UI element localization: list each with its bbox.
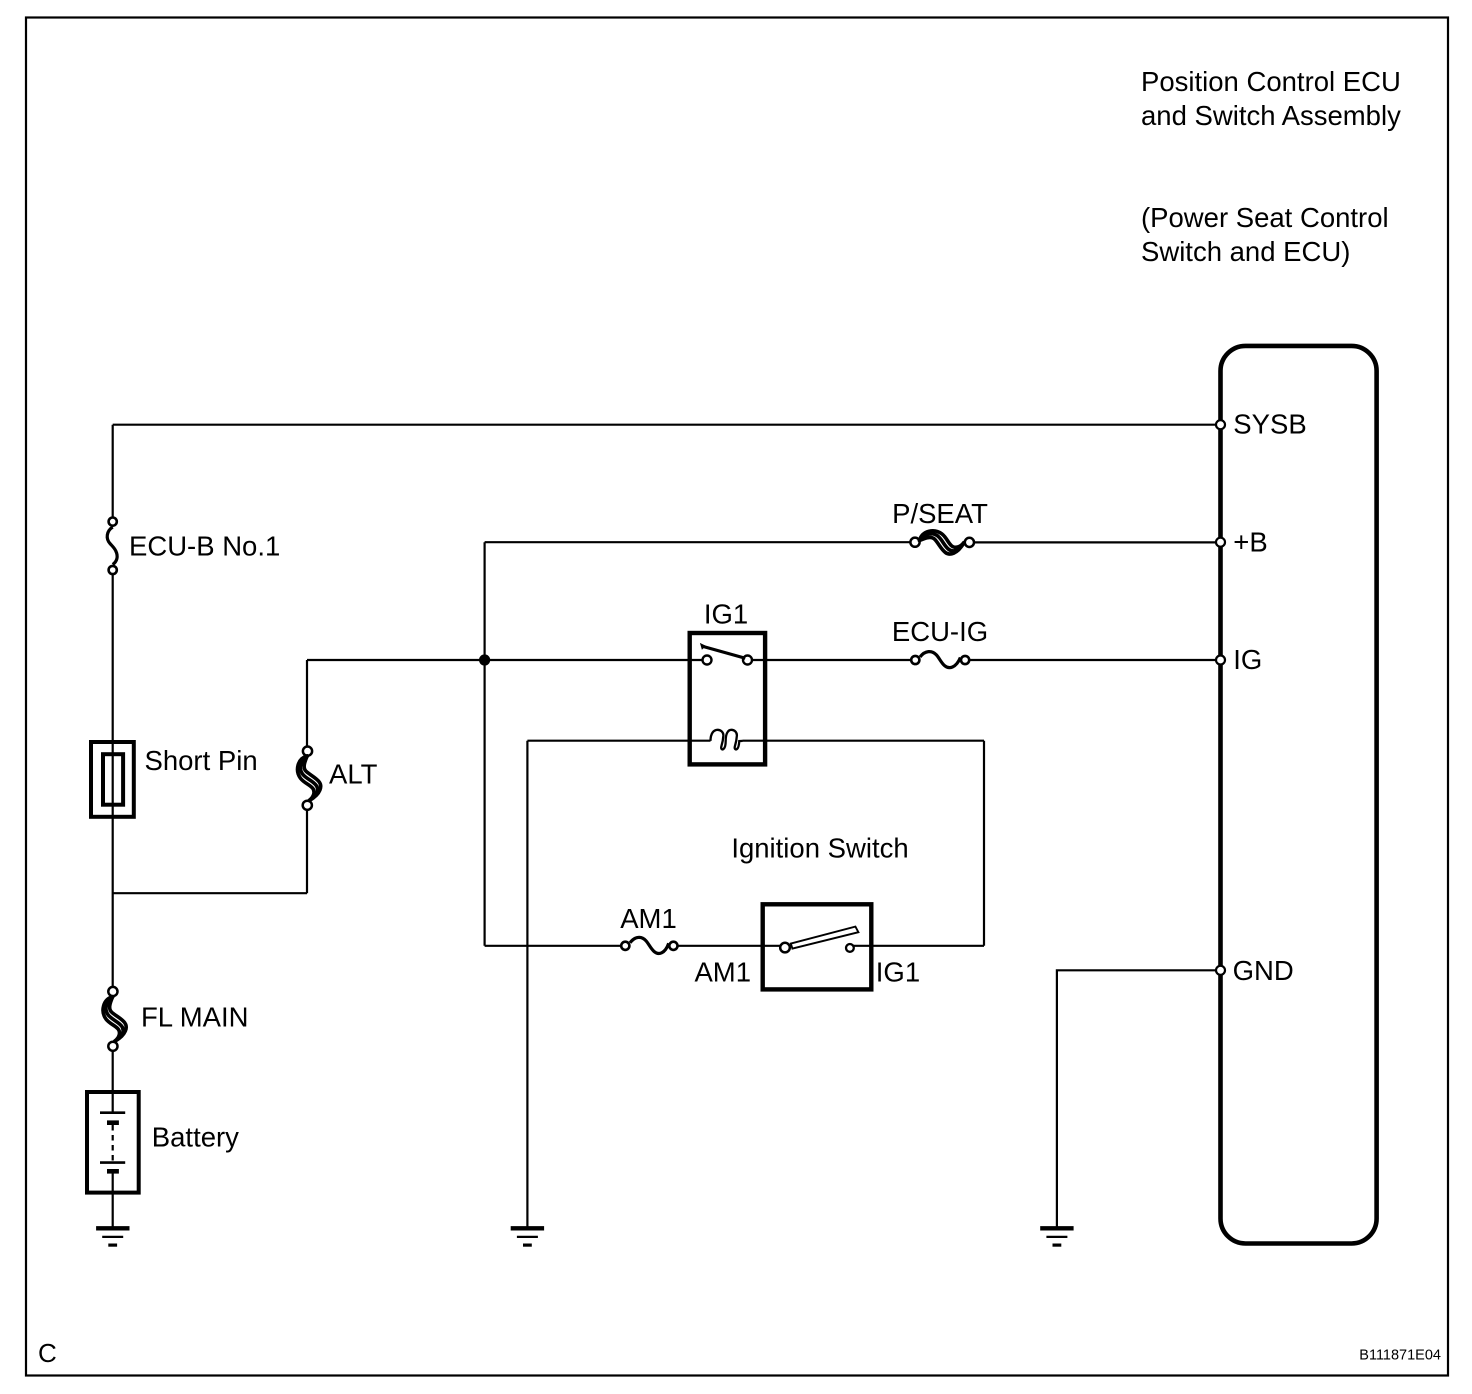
wire: GND pin to ground (y=970, x=1057) bbox=[1057, 970, 1216, 1227]
wire: relay coil feed (y=741) bbox=[527, 740, 984, 742]
wire: SYSB feed horizontal (y=425) bbox=[113, 424, 1216, 426]
short pin bbox=[91, 742, 258, 817]
fuse ECU-B No.1 bbox=[107, 518, 280, 575]
ECU connector body bbox=[1221, 346, 1377, 1244]
wire: battery positive vertical feed (x=113) bbox=[112, 425, 114, 1227]
pin GND bbox=[1216, 966, 1225, 975]
svg-text:C: C bbox=[38, 1338, 57, 1368]
svg-text:IG1: IG1 bbox=[704, 598, 748, 629]
svg-text:+B: +B bbox=[1233, 526, 1267, 557]
svg-text:ECU-IG: ECU-IG bbox=[892, 616, 988, 647]
svg-text:Battery: Battery bbox=[152, 1121, 239, 1152]
svg-text:Position Control ECU: Position Control ECU bbox=[1141, 66, 1401, 97]
ignition switch bbox=[694, 833, 920, 990]
fusible link FL MAIN bbox=[103, 987, 248, 1051]
svg-text:AM1: AM1 bbox=[694, 957, 751, 988]
fuse ECU-IG bbox=[892, 616, 988, 668]
wire: IG horizontal through relay and ECU-IG (y=660) bbox=[485, 659, 1216, 661]
svg-text:and Switch Assembly: and Switch Assembly bbox=[1141, 100, 1401, 131]
svg-text:ECU-B No.1: ECU-B No.1 bbox=[129, 531, 280, 562]
wire: +B feed vertical (x=485) bbox=[484, 542, 486, 946]
pin SYSB bbox=[1216, 420, 1225, 429]
svg-text:B111871E04: B111871E04 bbox=[1359, 1348, 1441, 1364]
wire: ALT branch (x=307 up to IG net) bbox=[113, 660, 485, 893]
ground (ECU GND) bbox=[1040, 1228, 1073, 1245]
svg-text:(Power Seat Control: (Power Seat Control bbox=[1141, 202, 1389, 233]
battery bbox=[87, 1092, 239, 1193]
svg-text:AM1: AM1 bbox=[620, 903, 677, 934]
ground (relay coil) bbox=[511, 1228, 544, 1245]
svg-text:SYSB: SYSB bbox=[1233, 409, 1306, 440]
wire: +B horizontal through P/SEAT (y=542) bbox=[485, 541, 1216, 543]
junction node (IG net) bbox=[479, 654, 490, 665]
relay IG1 bbox=[690, 598, 765, 764]
fuse P/SEAT bbox=[892, 498, 988, 554]
wire: ignition switch IG1 to relay coil (x=984) bbox=[983, 741, 985, 946]
svg-text:FL MAIN: FL MAIN bbox=[141, 1002, 248, 1033]
ECU label (Position Control ECU and Switch Assembly) bbox=[1141, 66, 1401, 267]
fusible link ALT bbox=[298, 747, 378, 810]
svg-text:IG: IG bbox=[1233, 644, 1262, 675]
svg-text:ALT: ALT bbox=[329, 758, 378, 789]
pin +B bbox=[1216, 538, 1225, 547]
wire: AM1 feed horizontal (y=946) bbox=[485, 945, 984, 947]
ground (battery) bbox=[96, 1228, 129, 1245]
wire: relay coil to ground (x=527) bbox=[526, 741, 528, 1227]
svg-text:IG1: IG1 bbox=[876, 957, 920, 988]
svg-text:Short Pin: Short Pin bbox=[145, 745, 258, 776]
pin IG bbox=[1216, 656, 1225, 665]
svg-text:Switch and ECU): Switch and ECU) bbox=[1141, 236, 1350, 267]
svg-text:GND: GND bbox=[1233, 955, 1294, 986]
svg-text:Ignition Switch: Ignition Switch bbox=[731, 833, 908, 864]
fuse AM1 bbox=[620, 903, 677, 954]
svg-text:P/SEAT: P/SEAT bbox=[892, 498, 988, 529]
